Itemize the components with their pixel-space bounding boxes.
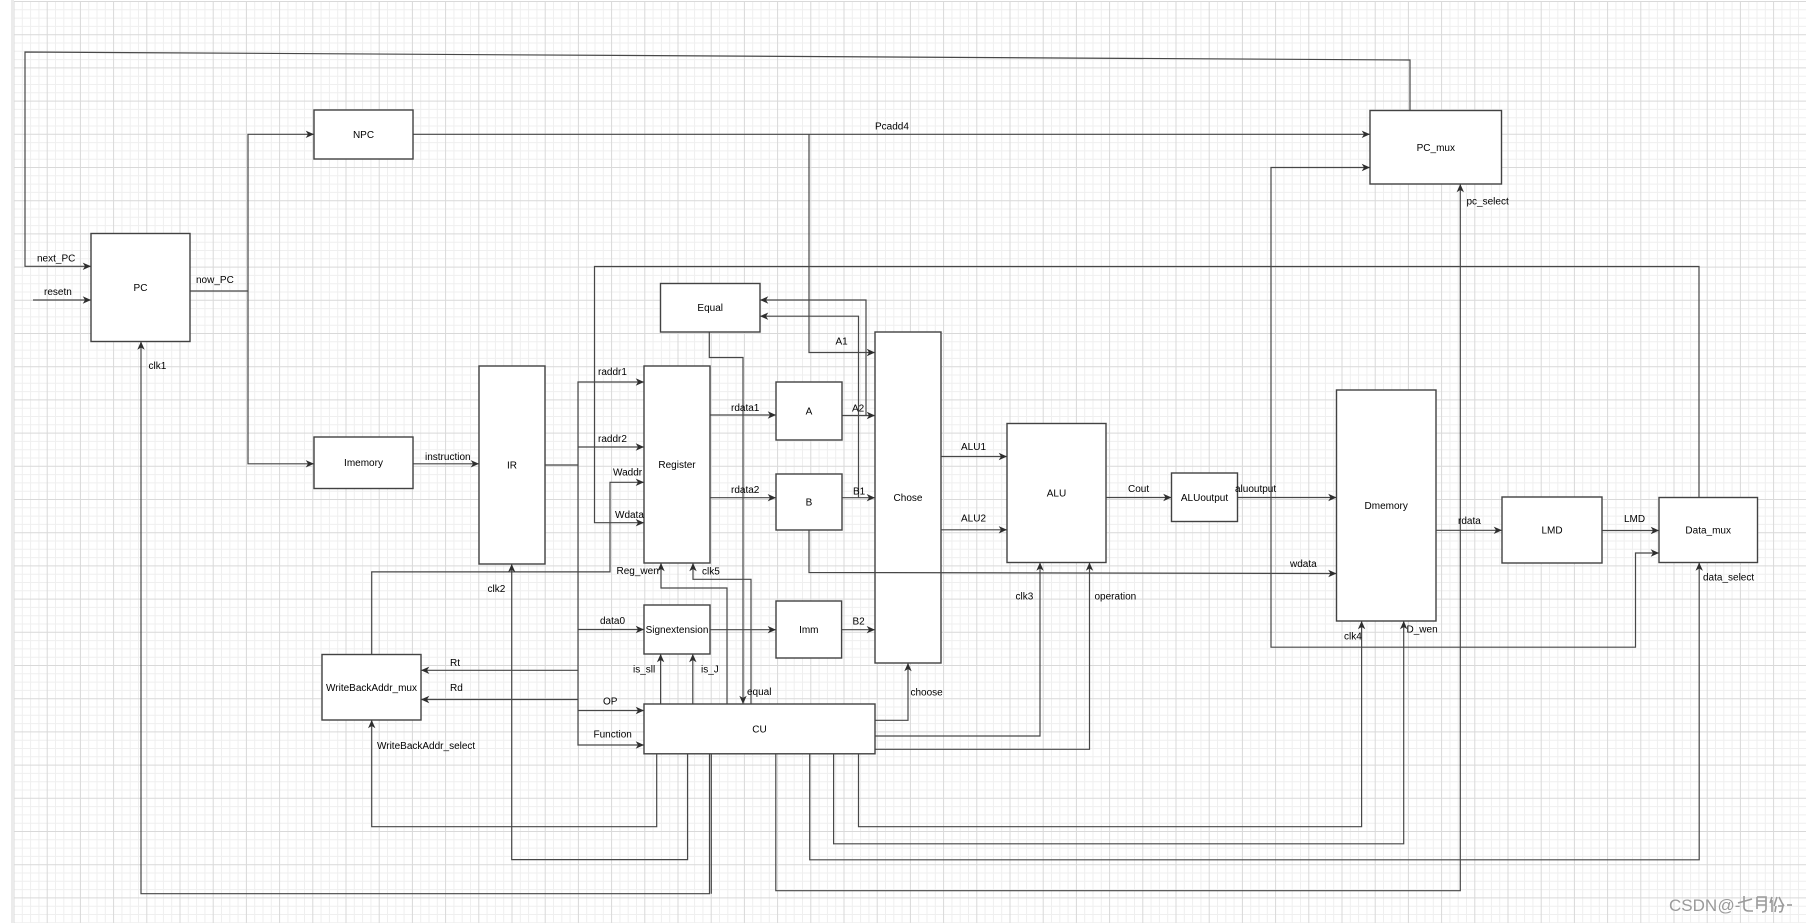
svg-text:next_PC: next_PC	[37, 254, 75, 265]
svg-text:clk1: clk1	[149, 361, 167, 372]
svg-text:IR: IR	[507, 461, 517, 472]
svg-text:Pcadd4: Pcadd4	[875, 122, 909, 133]
svg-text:Cout: Cout	[1128, 484, 1149, 495]
svg-text:aluoutput: aluoutput	[1235, 484, 1276, 495]
svg-text:B2: B2	[853, 617, 866, 628]
svg-text:Imemory: Imemory	[344, 458, 383, 469]
svg-text:A2: A2	[852, 404, 865, 415]
svg-text:choose: choose	[911, 688, 944, 699]
svg-text:Reg_wen: Reg_wen	[617, 566, 659, 577]
svg-text:ALU2: ALU2	[961, 514, 986, 525]
svg-text:Wdata: Wdata	[615, 510, 644, 521]
svg-text:Equal: Equal	[697, 303, 723, 314]
svg-text:clk2: clk2	[488, 584, 506, 595]
svg-text:OP: OP	[603, 697, 618, 708]
svg-text:rdata2: rdata2	[731, 485, 760, 496]
svg-text:pc_select: pc_select	[1467, 197, 1509, 208]
svg-text:raddr2: raddr2	[598, 434, 627, 445]
svg-text:rdata1: rdata1	[731, 403, 760, 414]
svg-text:CSDN: CSDN	[1669, 896, 1717, 915]
svg-text:clk5: clk5	[702, 567, 720, 578]
svg-text:is_J: is_J	[701, 665, 719, 676]
svg-text:ALU1: ALU1	[961, 442, 986, 453]
svg-text:CU: CU	[752, 724, 766, 735]
svg-text:@-: @-	[1718, 896, 1741, 915]
svg-text:A: A	[806, 407, 813, 418]
svg-text:rdata: rdata	[1458, 516, 1481, 527]
svg-text:data0: data0	[600, 616, 625, 627]
svg-text:WriteBackAddr_mux: WriteBackAddr_mux	[326, 683, 417, 694]
svg-text:B1: B1	[853, 487, 866, 498]
svg-text:Imm: Imm	[799, 625, 818, 636]
svg-text:clk4: clk4	[1344, 632, 1362, 643]
svg-text:equal: equal	[747, 687, 771, 698]
svg-text:Signextension: Signextension	[646, 625, 709, 636]
svg-text:Function: Function	[594, 730, 632, 741]
svg-text:B: B	[806, 498, 813, 509]
svg-text:PC: PC	[134, 283, 148, 294]
svg-text:raddr1: raddr1	[598, 367, 627, 378]
svg-text:LMD: LMD	[1624, 514, 1645, 525]
svg-text:A1: A1	[836, 337, 849, 348]
svg-text:LMD: LMD	[1541, 526, 1562, 537]
svg-text:Chose: Chose	[894, 493, 923, 504]
svg-text:Rt: Rt	[450, 658, 460, 669]
svg-text:now_PC: now_PC	[196, 275, 234, 286]
svg-text:wdata: wdata	[1289, 559, 1317, 570]
svg-text:operation: operation	[1095, 592, 1137, 603]
svg-text:ALUoutput: ALUoutput	[1181, 493, 1228, 504]
svg-text:Data_mux: Data_mux	[1685, 526, 1731, 537]
svg-text:WriteBackAddr_select: WriteBackAddr_select	[377, 741, 475, 752]
svg-text:resetn: resetn	[44, 287, 72, 298]
svg-text:Rd: Rd	[450, 683, 463, 694]
svg-text:instruction: instruction	[425, 452, 471, 463]
svg-text:Register: Register	[658, 460, 696, 471]
svg-text:NPC: NPC	[353, 130, 374, 141]
svg-text:Waddr: Waddr	[613, 468, 643, 479]
svg-text:ALU: ALU	[1047, 489, 1066, 500]
svg-text:PC_mux: PC_mux	[1417, 143, 1455, 154]
svg-text:data_select: data_select	[1703, 573, 1754, 584]
svg-text:Dmemory: Dmemory	[1365, 501, 1408, 512]
svg-text:clk3: clk3	[1016, 592, 1034, 603]
svg-text:is_sll: is_sll	[633, 665, 655, 676]
svg-text:D_wen: D_wen	[1407, 625, 1438, 636]
